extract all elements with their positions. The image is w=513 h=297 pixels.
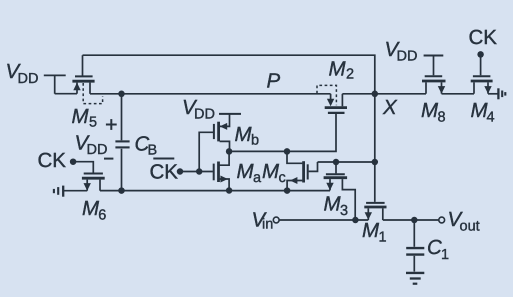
terminal CK dot right — [477, 51, 484, 58]
transistor M5 — [72, 55, 94, 94]
transistor M4 — [471, 54, 493, 93]
label M3 — [324, 193, 349, 220]
svg-text:M: M — [237, 160, 255, 183]
label Ma — [237, 160, 263, 186]
terminal CK-bar dot — [177, 168, 184, 175]
dashed charge path M2 — [317, 85, 336, 105]
label Mc — [262, 160, 286, 186]
wire VDD to M5 source — [55, 93, 77, 95]
VDD supply bar right — [424, 55, 444, 57]
svg-text:M: M — [362, 219, 380, 242]
svg-text:b: b — [251, 133, 259, 149]
svg-text:P: P — [267, 70, 281, 93]
svg-text:DD: DD — [194, 107, 215, 123]
label M2 — [329, 57, 355, 82]
junction X gate tap — [372, 159, 379, 166]
label M5 — [72, 105, 98, 131]
svg-text:6: 6 — [98, 208, 106, 224]
capacitor CB — [115, 94, 129, 191]
label CB — [135, 133, 158, 159]
svg-text:X: X — [382, 96, 398, 119]
transistor Mc — [287, 151, 318, 190]
label M4 — [471, 99, 495, 126]
junction M3 to vin wire — [352, 217, 359, 224]
label VDD top-left — [6, 60, 39, 87]
transistor M3 — [324, 162, 356, 220]
svg-text:8: 8 — [438, 110, 446, 126]
svg-text:c: c — [279, 170, 286, 186]
svg-text:2: 2 — [346, 66, 354, 82]
svg-text:a: a — [253, 170, 262, 186]
dashed charge path M5 — [83, 83, 102, 104]
wire bottom rail (CB bottom plate node) — [100, 190, 330, 192]
ground bottom — [406, 273, 424, 284]
wire M5 drain to M2 source (node X left run) — [90, 93, 331, 95]
svg-text:3: 3 — [340, 203, 348, 219]
svg-text:M: M — [324, 193, 342, 216]
VDD supply bar top-left — [44, 75, 66, 93]
wire M8 to M4 — [442, 93, 475, 95]
junction Ma source on rail — [226, 187, 233, 194]
transistor Ma — [214, 151, 229, 190]
label VDD middle — [182, 96, 215, 123]
wire branch to Mb gate — [199, 132, 213, 171]
svg-text:M: M — [262, 160, 280, 183]
ground right (sideways) — [498, 88, 505, 99]
svg-text:4: 4 — [487, 110, 495, 126]
junction node X — [372, 91, 379, 98]
svg-text:in: in — [262, 217, 273, 233]
svg-text:5: 5 — [89, 114, 97, 130]
svg-text:M: M — [421, 99, 439, 122]
wire node X column — [374, 94, 376, 202]
svg-text:B: B — [148, 143, 158, 159]
svg-text:1: 1 — [441, 247, 449, 263]
label CK-bar — [150, 158, 179, 184]
label C1 — [427, 236, 449, 263]
terminal vin — [273, 217, 279, 223]
capacitor C1 — [406, 220, 424, 272]
label M1 — [362, 219, 387, 246]
label vin — [252, 209, 274, 233]
svg-text:out: out — [460, 219, 480, 235]
wire inverter output to M2 gate — [229, 114, 336, 151]
wire M4 to ground right — [488, 93, 498, 95]
label M8 — [421, 99, 446, 126]
svg-text:CK: CK — [150, 161, 179, 184]
ground left (sideways) — [54, 186, 87, 197]
transistor M8 — [422, 56, 446, 94]
svg-text:CK: CK — [38, 149, 67, 172]
svg-text:CK: CK — [469, 26, 498, 49]
transistor M1 — [364, 203, 386, 220]
junction M3 gate — [333, 159, 340, 166]
label Mb — [235, 123, 260, 149]
svg-text:DD: DD — [18, 71, 39, 87]
terminal Vout — [439, 217, 445, 223]
junction inverter output — [226, 148, 233, 155]
label VDD across CB — [75, 132, 108, 159]
wire M1 drain to output — [383, 219, 439, 221]
svg-text:M: M — [329, 57, 347, 80]
wire node P rail — [83, 55, 375, 94]
wire vin to M1 source — [279, 219, 368, 221]
transistor Mb — [214, 114, 230, 151]
svg-text:DD: DD — [87, 142, 108, 158]
label Vout — [448, 208, 480, 235]
junction CB bottom — [118, 187, 125, 194]
VDD supply bar middle — [219, 113, 241, 115]
junction CB top — [118, 91, 125, 98]
svg-text:1: 1 — [379, 230, 387, 246]
wire X to Mc and M3 gates — [318, 161, 375, 163]
wire CK-bar to Ma gate — [180, 171, 213, 173]
transistor M2 — [325, 94, 347, 113]
label + (plus) — [106, 119, 117, 130]
label M6 — [82, 197, 106, 224]
wire M2 drain to node X — [342, 93, 374, 95]
label VDD right — [385, 38, 418, 65]
junction Mc drain tap — [284, 148, 291, 155]
junction output C1 — [411, 217, 418, 224]
junction Mc source on rail — [284, 187, 291, 194]
svg-text:C: C — [427, 236, 442, 259]
junction inverter input branch — [196, 168, 203, 175]
terminal CK dot left — [70, 158, 77, 165]
transistor M6 — [73, 162, 105, 191]
svg-text:DD: DD — [397, 49, 418, 65]
label - (minus) — [104, 158, 113, 160]
svg-text:M: M — [235, 123, 253, 146]
wire X to M8 source — [375, 93, 426, 95]
svg-text:M: M — [72, 105, 90, 128]
